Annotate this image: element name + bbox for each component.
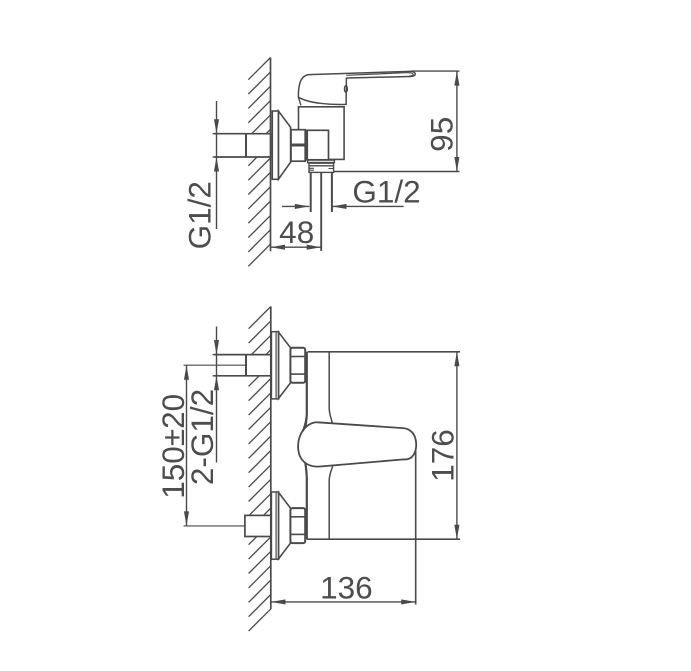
svg-text:2-G1/2: 2-G1/2 <box>184 389 220 485</box>
svg-text:176: 176 <box>425 429 461 482</box>
svg-text:48: 48 <box>279 214 314 250</box>
svg-text:G1/2: G1/2 <box>352 173 420 209</box>
svg-text:95: 95 <box>424 117 460 152</box>
svg-text:136: 136 <box>320 569 373 605</box>
svg-text:G1/2: G1/2 <box>182 181 218 249</box>
